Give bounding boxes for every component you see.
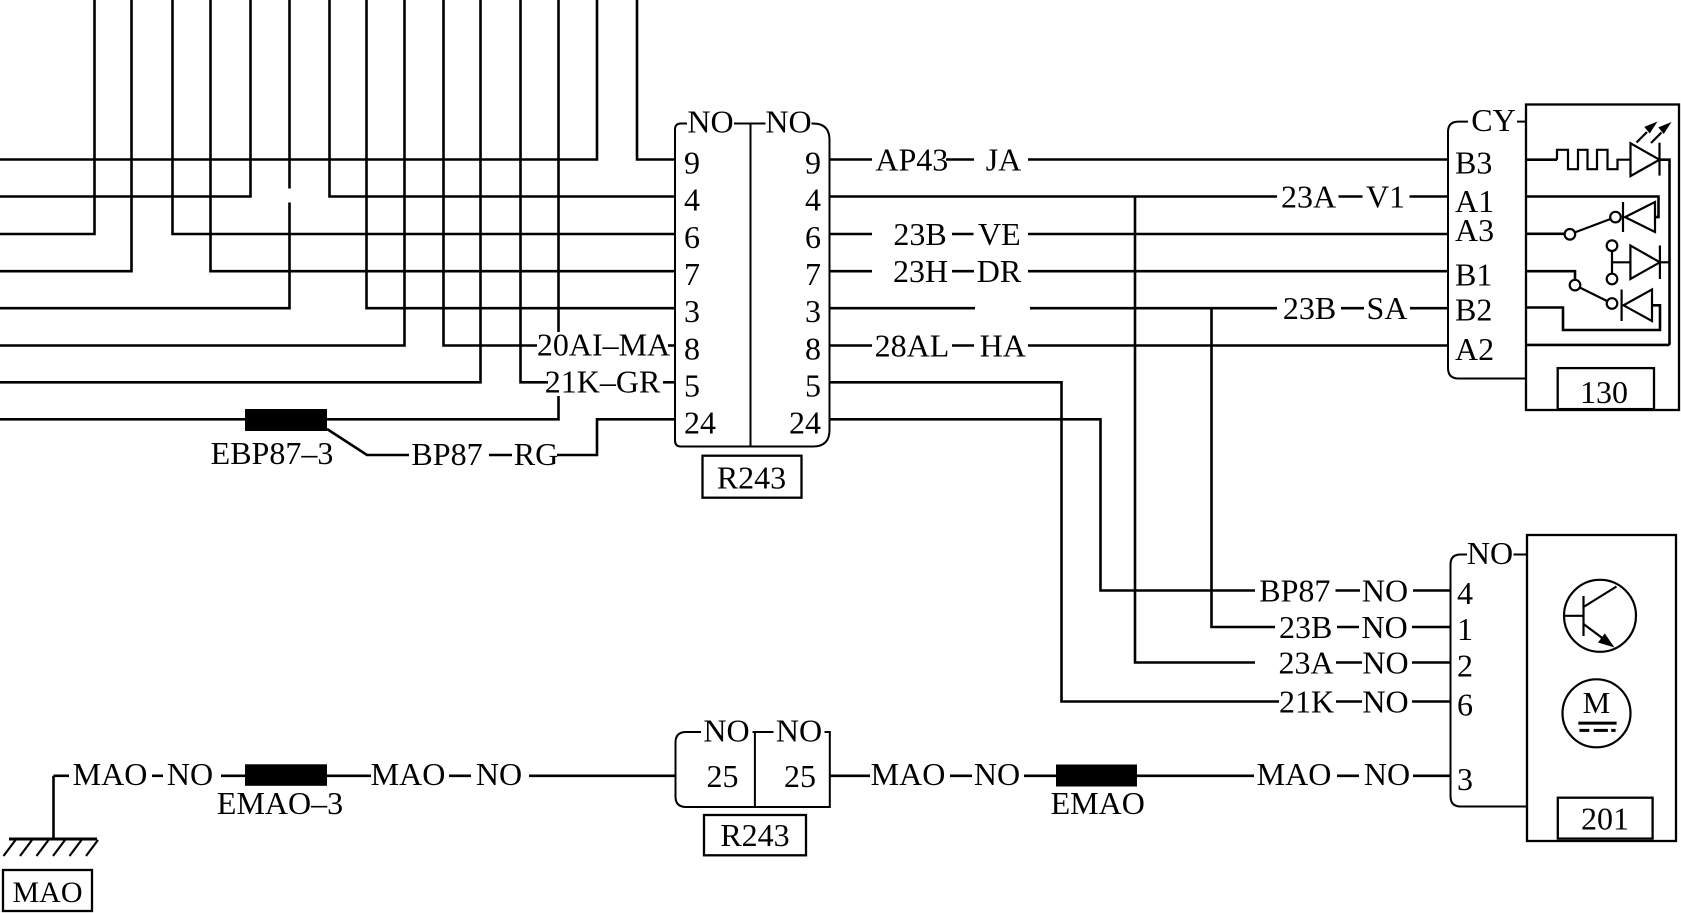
svg-text:EMAO: EMAO (1051, 785, 1145, 821)
svg-text:B1: B1 (1455, 257, 1492, 293)
svg-text:25: 25 (784, 758, 816, 794)
svg-text:25: 25 (707, 758, 739, 794)
wire JA to B3 of 130 (1028, 158, 1448, 161)
wire from pin 25 right (830, 774, 870, 777)
wire 5 left segment to top edge (0, 0, 481, 382)
wire dash (1336, 700, 1362, 703)
svg-text:A2: A2 (1455, 331, 1494, 367)
wire to pin 6 of 201 (1412, 700, 1451, 703)
svg-text:130: 130 (1580, 374, 1628, 410)
switch blade a (1575, 219, 1611, 232)
transistor Q1 (1564, 580, 1636, 652)
svg-text:HA: HA (980, 328, 1026, 364)
wire to pin 3 of R243 (367, 0, 676, 308)
svg-text:MAO: MAO (12, 876, 82, 909)
wire pin9 to AP43 (830, 158, 872, 161)
wire dash (952, 233, 974, 236)
wire dash (952, 344, 974, 347)
wire dash (1337, 774, 1359, 777)
svg-text:B3: B3 (1455, 145, 1492, 181)
wire pin6 to 23B (830, 233, 872, 236)
svg-text:NO: NO (1364, 756, 1410, 792)
wire dash (54, 774, 70, 777)
svg-text:23A: 23A (1278, 645, 1333, 681)
switch contact m1 (1607, 240, 1618, 251)
svg-text:JA: JA (986, 142, 1022, 178)
svg-text:NO: NO (1362, 645, 1408, 681)
svg-text:23B: 23B (1283, 290, 1336, 326)
wire to pin 2 of 201 (1412, 661, 1451, 664)
component 201 box (1527, 535, 1676, 841)
svg-text:201: 201 (1581, 801, 1629, 837)
svg-text:MAO: MAO (73, 756, 148, 792)
diode D2 (1625, 202, 1655, 232)
svg-text:BP87: BP87 (1259, 573, 1330, 609)
wire dash (1341, 307, 1364, 310)
svg-text:EMAO–3: EMAO–3 (217, 785, 343, 821)
ground MAO (52, 776, 55, 839)
wire dash (489, 454, 512, 457)
svg-text:MAO: MAO (371, 756, 446, 792)
svg-text:9: 9 (805, 145, 821, 181)
motor M1 (1563, 679, 1631, 747)
wire branch 23B down (1212, 308, 1276, 627)
svg-text:24: 24 (789, 404, 821, 440)
wire pin4 right with branch (830, 195, 1277, 198)
label box 201 (1558, 798, 1653, 839)
svg-text:23B: 23B (1279, 609, 1332, 645)
svg-text:NO: NO (1362, 573, 1408, 609)
wire VE to A3 of 130 (1028, 233, 1448, 236)
splice EBP87-3 (245, 409, 327, 431)
svg-text:V1: V1 (1366, 179, 1405, 215)
svg-text:MAO: MAO (1257, 756, 1332, 792)
wire dash (1339, 195, 1363, 198)
component 130 box (1526, 105, 1679, 411)
wire from splice (327, 774, 371, 777)
wire dash (946, 158, 974, 161)
svg-text:EBP87–3: EBP87–3 (211, 435, 334, 471)
switch contact m2 (1607, 274, 1618, 285)
connector R243 bottom outline (676, 732, 830, 807)
svg-text:R243: R243 (717, 460, 786, 496)
svg-text:5: 5 (805, 367, 821, 403)
switch contact a1 (1610, 212, 1621, 223)
label box R243 (704, 815, 806, 855)
LED arrow 2 (1651, 133, 1662, 144)
wire 21K-GR to pin 5 (521, 0, 549, 382)
svg-text:NO: NO (687, 104, 733, 140)
wire SA to B2 of 130 (1410, 307, 1448, 310)
wire 20AI-MA to pin 8 (444, 0, 538, 346)
wire segment with branch 23B (1030, 307, 1277, 310)
wire dash (449, 774, 471, 777)
wire A3 internal (1526, 233, 1565, 236)
svg-text:RG: RG (514, 436, 558, 472)
svg-text:23A: 23A (1281, 179, 1336, 215)
wire A1 internal (1526, 197, 1659, 218)
diode D4 (1620, 290, 1622, 322)
svg-text:4: 4 (805, 182, 821, 218)
wire B1 internal (1526, 271, 1575, 280)
svg-text:7: 7 (805, 256, 821, 292)
svg-text:20AI–MA: 20AI–MA (537, 327, 670, 363)
connector shell of 201 (1451, 555, 1528, 807)
svg-text:6: 6 (805, 219, 821, 255)
svg-text:6: 6 (1457, 687, 1473, 723)
svg-text:8: 8 (684, 331, 700, 367)
svg-text:21K–GR: 21K–GR (545, 363, 661, 399)
splice EMAO (1056, 765, 1137, 787)
svg-text:NO: NO (167, 756, 213, 792)
wire dash (950, 774, 972, 777)
wire 3 left segment with crossing break (288, 0, 291, 189)
wire HA to A2 of 130 (1028, 344, 1448, 347)
svg-text:NO: NO (974, 756, 1020, 792)
switch contact a2 (1565, 229, 1576, 240)
wire pin5 to 21K-NO (830, 382, 1279, 701)
svg-text:3: 3 (805, 293, 821, 329)
switch blade b (1580, 288, 1608, 302)
wire BP87-RG to pin 24 (557, 419, 675, 455)
LED D1 (1631, 143, 1660, 176)
svg-text:M: M (1583, 685, 1611, 720)
wire A2 internal (1526, 344, 1670, 347)
svg-text:21K: 21K (1279, 684, 1334, 720)
svg-text:MAO: MAO (871, 756, 946, 792)
wire to splice EMAO (1024, 774, 1056, 777)
svg-text:5: 5 (684, 367, 700, 403)
wire DR to B1 of 130 (1028, 270, 1448, 273)
wire 6 left segment to top edge (0, 0, 95, 234)
label box R243 (703, 456, 802, 498)
wire dash (952, 270, 974, 273)
wire to pin 1 of 201 (1412, 626, 1451, 629)
svg-text:28AL: 28AL (875, 328, 950, 364)
svg-text:4: 4 (1457, 575, 1473, 611)
LED arrow 1 (1637, 132, 1648, 143)
wire to pin 4 of 201 (1413, 589, 1451, 592)
wire B2 internal jog (1526, 305, 1660, 330)
wire dash (1336, 661, 1362, 664)
wire BP87-RG from splice (327, 429, 409, 455)
wire to pin 7 of R243 (211, 0, 676, 271)
svg-text:R243: R243 (720, 817, 789, 853)
svg-text:NO: NO (476, 756, 522, 792)
svg-text:B2: B2 (1455, 292, 1492, 328)
wire dash (1337, 626, 1359, 629)
wire pin3 right segment (830, 307, 975, 310)
svg-text:NO: NO (1467, 535, 1513, 571)
wire to pin 3 of 201 (1413, 774, 1451, 777)
wire 8 left segment to top edge (0, 0, 405, 346)
svg-text:NO: NO (1361, 609, 1407, 645)
wire vertical through labels to splice line (557, 0, 560, 332)
svg-text:3: 3 (684, 293, 700, 329)
wire V1 to A1 of 130 (1410, 195, 1449, 198)
svg-text:9: 9 (684, 145, 700, 181)
wire from splice (1137, 774, 1254, 777)
switch link m (1611, 251, 1613, 274)
wire return right side (1660, 160, 1670, 345)
label box MAO (3, 870, 92, 911)
diode D3 (1630, 246, 1660, 280)
svg-text:23H: 23H (893, 253, 948, 289)
wire pin8 to 28AL (830, 344, 872, 347)
svg-text:8: 8 (805, 331, 821, 367)
wire to pin 4 of R243 (330, 0, 676, 197)
svg-text:A3: A3 (1455, 212, 1494, 248)
svg-text:7: 7 (684, 256, 700, 292)
svg-text:NO: NO (765, 104, 811, 140)
svg-text:23B: 23B (893, 216, 946, 252)
wire 7 left segment to top edge (0, 0, 132, 271)
svg-text:NO: NO (1362, 684, 1408, 720)
svg-text:1: 1 (1457, 611, 1473, 647)
svg-text:4: 4 (684, 182, 700, 218)
wire pin7 to 23H (830, 270, 872, 273)
switch contact b2 (1607, 298, 1618, 309)
wire dash (1336, 589, 1361, 592)
wire dash (152, 774, 163, 777)
svg-text:DR: DR (977, 253, 1022, 289)
svg-text:6: 6 (684, 219, 700, 255)
wire 4 left segment to top edge (0, 0, 251, 197)
svg-text:SA: SA (1367, 290, 1408, 326)
wire to pin 9 of R243 (637, 0, 675, 160)
wire B3 internal (1526, 158, 1557, 161)
connector shell of 130 (1448, 122, 1526, 379)
switch contact b1 (1570, 280, 1581, 291)
resistor heating element (1557, 150, 1631, 169)
wire to pin 6 of R243 (173, 0, 676, 234)
svg-text:VE: VE (978, 216, 1021, 252)
connector R243 outline (675, 124, 830, 447)
svg-text:BP87: BP87 (411, 436, 482, 472)
wire to diode D3 (1612, 261, 1630, 263)
wire branch 23A down (1135, 197, 1255, 663)
svg-text:NO: NO (703, 713, 749, 749)
wire pin24 to BP87-NO (830, 419, 1255, 590)
wire 9 left segment to top edge (0, 0, 597, 160)
label box 130 (1558, 368, 1654, 409)
svg-text:AP43: AP43 (875, 142, 948, 178)
wire to R243 pin 25 (529, 774, 676, 777)
svg-text:2: 2 (1457, 648, 1473, 684)
wire to splice (221, 774, 245, 777)
svg-text:CY: CY (1471, 102, 1515, 138)
svg-text:NO: NO (776, 713, 822, 749)
svg-text:24: 24 (684, 404, 716, 440)
splice EMAO-3 (245, 764, 327, 786)
svg-text:3: 3 (1457, 761, 1473, 797)
